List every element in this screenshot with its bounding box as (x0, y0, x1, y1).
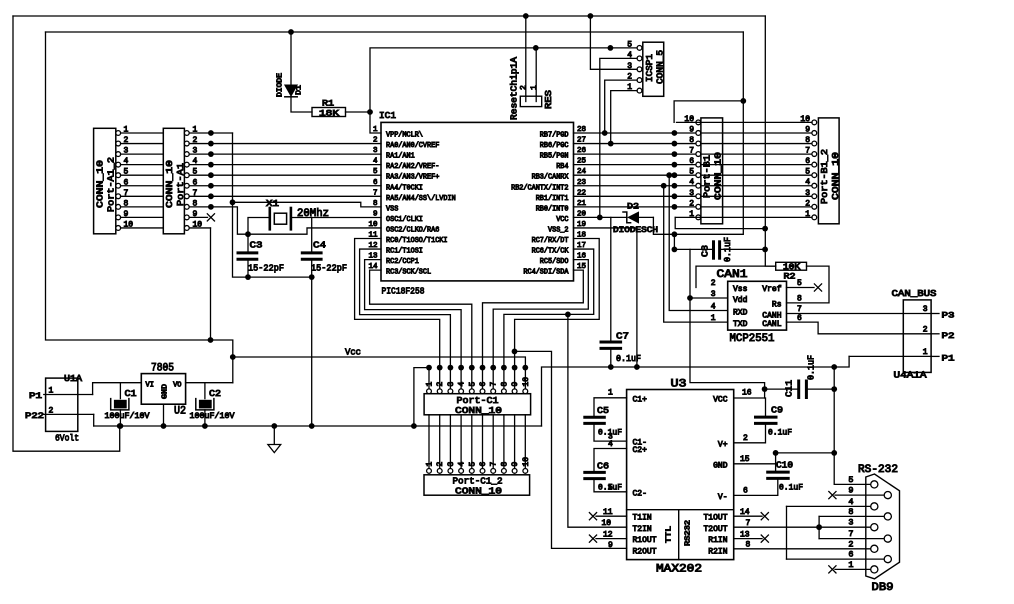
junction Port-B row 5 (672, 172, 678, 178)
svg-text:RC4/SDI/SDA: RC4/SDI/SDA (523, 269, 569, 277)
junction Port-A row 2 (208, 141, 214, 147)
svg-text:4: 4 (711, 302, 716, 311)
svg-text:0.1uF: 0.1uF (779, 483, 803, 493)
capacitor C5 (585, 416, 605, 419)
wire Port-A1_2 pin 2 to Port-A1 (121, 143, 164, 145)
svg-text:Port-B1_2: Port-B1_2 (819, 149, 830, 204)
svg-text:4: 4 (373, 158, 378, 166)
wire IC1 RC7 to Port-C pin 9 (515, 239, 600, 390)
svg-text:6: 6 (805, 157, 810, 166)
svg-text:8: 8 (500, 462, 509, 467)
wire DB9 pin8 row (819, 515, 885, 517)
svg-text:P1: P1 (942, 353, 955, 363)
svg-text:5: 5 (608, 483, 613, 492)
svg-text:8: 8 (373, 200, 378, 208)
junction C8 gnd lead (762, 247, 768, 253)
resistor R1 (312, 108, 346, 117)
wire IC1 VSS_2 to GND mid line (574, 228, 637, 367)
wire IC1 RC6 to Port-C pin 8 (504, 249, 594, 389)
wire IC1 RC5 to Port-C pin 7 (493, 260, 588, 390)
svg-text:C8: C8 (701, 245, 711, 257)
junction Port-A row 1 (208, 130, 214, 136)
junction Port-B row 8 (672, 204, 678, 210)
pin Port-C1 pin 4 (459, 389, 464, 394)
pin Port-A1 pin 1 (184, 131, 189, 136)
junction U3 gnd/C10 (773, 450, 779, 456)
junction C8 vcc lead (672, 247, 678, 253)
svg-text:P1: P1 (29, 391, 42, 401)
junction Port-C pin1 at bus (411, 423, 417, 429)
svg-text:0.1uF: 0.1uF (723, 237, 733, 262)
junction RES pin2 on GND rail (523, 13, 529, 19)
svg-text:RA5/AN4/SS\/LVDIN: RA5/AN4/SS\/LVDIN (386, 195, 456, 203)
pin Port-C1_2 pin 1 (427, 469, 432, 474)
capacitor C10 (768, 471, 789, 474)
svg-text:4: 4 (458, 462, 467, 467)
capacitor C2 (polarized) (204, 383, 206, 399)
svg-text:Vdd: Vdd (733, 296, 748, 305)
svg-text:PIC18F258: PIC18F258 (382, 286, 425, 297)
svg-text:3: 3 (805, 189, 810, 198)
capacitor C3 (238, 251, 257, 254)
svg-text:RB2/CANTX/INT2: RB2/CANTX/INT2 (511, 184, 568, 192)
junction Port-A row 6 (208, 183, 214, 189)
pin Port-A1 pin 9 (184, 215, 189, 220)
svg-text:2: 2 (436, 382, 445, 387)
capacitor C1 (polarized) (119, 383, 121, 399)
op-amp U1 IC1 PIC18F258 body (381, 122, 574, 281)
svg-text:9: 9 (511, 462, 520, 467)
svg-text:18K: 18K (319, 109, 340, 119)
pin Port-A1_2 pin 4 (116, 162, 121, 167)
wire IC1 VCC pin20 to D2 (574, 216, 627, 218)
svg-text:R2OUT: R2OUT (633, 547, 657, 556)
wire Port-A row 5 to IC1 RA3 (189, 174, 381, 176)
svg-text:100uF/10V: 100uF/10V (105, 411, 151, 421)
junction gnd bus tap (309, 423, 315, 429)
pin Port-C1 pin 7 (491, 389, 496, 394)
svg-text:2: 2 (848, 539, 853, 549)
pin Port-A1 pin 2 (184, 141, 189, 146)
svg-text:D2: D2 (627, 202, 639, 212)
pin DB9 pin 3 (871, 524, 878, 531)
wire DB9 pin4 row (787, 505, 873, 507)
junction RX branch on RC7 wire (512, 349, 518, 355)
svg-text:VCC: VCC (713, 395, 728, 404)
wire RX to R2OUT (515, 351, 627, 548)
svg-text:7: 7 (848, 529, 853, 539)
svg-text:5: 5 (373, 168, 378, 176)
svg-text:0.1uF: 0.1uF (616, 354, 641, 364)
svg-text:3: 3 (711, 290, 716, 299)
svg-text:5: 5 (797, 279, 802, 288)
svg-text:1: 1 (848, 560, 853, 570)
wire Port-A1_2 pin 9 to Port-A1 (121, 216, 164, 218)
junction Port-A row 7 (208, 193, 214, 199)
svg-text:RA1/AN1: RA1/AN1 (386, 153, 415, 161)
svg-text:Port-B1: Port-B1 (702, 155, 713, 198)
wire IC1 RB3 row to Port-B (574, 174, 697, 176)
pin Port-B1 pin 2 (696, 204, 701, 209)
wire C7 top lead from VCC row (610, 217, 612, 342)
svg-text:GND: GND (162, 384, 170, 399)
junction GND line to C11/DB9 branch (831, 364, 837, 370)
svg-text:C7: C7 (616, 331, 629, 342)
junction Port-C pin 9 joint (512, 365, 518, 371)
pin Port-C1 pin 6 (480, 389, 485, 394)
junction Port-C pin 6 joint (480, 365, 486, 371)
svg-text:RB4: RB4 (556, 163, 568, 171)
junction Port-B row 2 (672, 141, 678, 147)
svg-text:5: 5 (468, 462, 477, 467)
capacitor C6 (585, 471, 605, 474)
connector Port-B1 CONN_10 (701, 118, 723, 224)
pin Port-B1 pin 4 (696, 183, 701, 188)
wire Vdd drop to U3 VCC (690, 249, 765, 389)
junction C11 right lead (831, 386, 837, 392)
svg-text:RB3/CANRX: RB3/CANRX (532, 174, 570, 182)
svg-text:1: 1 (923, 348, 928, 357)
svg-text:C10: C10 (776, 461, 793, 471)
wire Port-C1_2 pin 9 riser (514, 415, 516, 469)
svg-text:2: 2 (743, 434, 748, 443)
junction ICSP1 pin4 at IC VCC (597, 215, 603, 221)
wire Port-A1_2 pin 5 to Port-A1 (121, 174, 164, 176)
svg-text:ResetChip1A: ResetChip1A (510, 56, 520, 120)
svg-text:0.1uF: 0.1uF (807, 355, 817, 380)
transistor U5 MCP2551 body (728, 281, 787, 330)
wire GND riser to mid line (542, 356, 850, 426)
wire Port-A row10 to riser (189, 227, 210, 229)
junction ICSP1 pin1 at RB6 (608, 141, 614, 147)
svg-text:2: 2 (923, 325, 928, 334)
svg-text:R2: R2 (784, 272, 796, 282)
svg-text:RA2/AN2/VREF-: RA2/AN2/VREF- (386, 163, 439, 171)
junction Port-C pin 2 joint (437, 365, 443, 371)
svg-text:TTL: TTL (666, 525, 674, 543)
svg-text:D1: D1 (296, 85, 304, 95)
wire Port-A row 3 to IC1 RA1 (189, 153, 381, 155)
pin Port-A1 pin 3 (184, 152, 189, 157)
pin Port-C1_2 pin 8 (502, 469, 507, 474)
svg-text:CONN_10: CONN_10 (830, 152, 841, 200)
wire crystal left to OSC2 net (248, 218, 270, 235)
wire U3 pin16 feed (764, 389, 766, 398)
svg-text:RC6/TX/CK: RC6/TX/CK (532, 248, 570, 256)
pin CAN_BUS pin2 P2 (931, 333, 939, 335)
svg-text:C2+: C2+ (633, 446, 648, 455)
svg-text:7: 7 (805, 147, 810, 156)
wire Port-C1_2 pin 6 riser (482, 415, 484, 469)
pin Port-C1 pin 10 (523, 389, 528, 394)
resistor R2 10K (776, 262, 807, 270)
junction MCP Vdd (687, 295, 693, 301)
svg-text:10: 10 (522, 377, 531, 387)
wire 7805 GND pin to bus (163, 404, 165, 426)
wire Port-B row1 (to Port-B1_2) (675, 216, 812, 218)
svg-text:TXD: TXD (733, 320, 748, 329)
svg-text:R1OUT: R1OUT (633, 536, 657, 545)
wire MCP Vss branch (696, 266, 776, 287)
svg-text:6: 6 (848, 550, 853, 560)
pin DB9 pin 8 (884, 513, 891, 520)
pin Port-C1_2 pin 5 (469, 469, 474, 474)
svg-text:5: 5 (627, 40, 632, 49)
svg-text:CONN_10: CONN_10 (95, 160, 106, 208)
pin Port-A1 pin 6 (184, 183, 189, 188)
svg-text:9: 9 (805, 125, 810, 134)
svg-text:T2OUT: T2OUT (703, 525, 727, 534)
svg-text:DB9: DB9 (872, 582, 894, 594)
svg-text:1: 1 (608, 388, 613, 397)
pin CAN_BUS pin3 P3 (931, 313, 939, 315)
junction Port-C pin1 joint (426, 365, 432, 371)
svg-text:X1: X1 (266, 198, 279, 209)
wire U3 GND jog to DB9 branch (776, 453, 835, 472)
pin ICSP1 pin 4 (637, 56, 642, 61)
wire Port-A1_2 pin 3 to Port-A1 (121, 153, 164, 155)
svg-text:10: 10 (368, 221, 378, 229)
wire IC1 RC2 to Port-C pin 4 (365, 260, 462, 390)
svg-text:3: 3 (848, 518, 853, 528)
wire P1 row to GND jog (849, 355, 931, 357)
pin DB9 pin 9 (884, 492, 891, 499)
wire Port-A row8 to OSC2 jog (189, 207, 381, 234)
junction C3 gnd (245, 274, 251, 280)
svg-text:6Volt: 6Volt (55, 433, 79, 444)
pin Port-C1 pin 1 (427, 389, 432, 394)
wire PortA pin10 riser (210, 228, 212, 340)
wire VCC right drop (653, 32, 743, 234)
pin Port-B1 pin 10 (696, 120, 701, 125)
wire OSC1 from crystal to IC pin9 (291, 217, 381, 219)
junction VSS branch (230, 199, 236, 205)
svg-text:VI: VI (146, 382, 154, 390)
svg-text:R1IN: R1IN (708, 536, 727, 545)
svg-text:C3: C3 (250, 240, 263, 251)
svg-text:3: 3 (373, 147, 378, 155)
pin Port-A1 pin 5 (184, 173, 189, 178)
connector Port-A1_2 CONN_10 (94, 128, 116, 234)
svg-text:OSC1/CLKI: OSC1/CLKI (386, 216, 423, 224)
svg-text:VO: VO (173, 382, 181, 390)
junction ICSP1 pin3 at GND rail (588, 13, 594, 19)
svg-text:RC7/RX/DT: RC7/RX/DT (532, 237, 570, 245)
svg-text:C1: C1 (125, 389, 137, 399)
svg-text:U2: U2 (174, 406, 186, 418)
svg-text:C6: C6 (597, 461, 609, 471)
svg-text:RC1/T1OSI: RC1/T1OSI (386, 248, 423, 256)
svg-text:4: 4 (805, 178, 810, 187)
svg-text:15: 15 (740, 455, 750, 464)
pin Port-B1 pin 3 (696, 194, 701, 199)
svg-text:V-: V- (718, 493, 728, 502)
pin Port-C1 pin 8 (502, 389, 507, 394)
pin Port-C1_2 pin 3 (448, 469, 453, 474)
pin Port-B1_2 pin 5 (812, 173, 817, 178)
pin Port-A1 pin 4 (184, 162, 189, 167)
svg-text:3: 3 (447, 382, 456, 387)
wire Port-C1_2 pin 10 riser (524, 415, 526, 469)
connector Port-B1_2 CONN_10 (818, 118, 839, 224)
pin Port-B1_2 pin 1 (812, 215, 817, 220)
junction T2OUT bracket (816, 524, 822, 530)
connector DB9 shell (866, 474, 900, 579)
junction D1 on VCC rail (288, 29, 294, 35)
junction PortB pin1 jog at GND drop (762, 226, 768, 232)
capacitor C8 (712, 242, 715, 258)
pin ICSP1 pin 3 (637, 67, 642, 72)
wire DB9 pin8/pin7 bracket (818, 516, 820, 538)
svg-text:0.1uF: 0.1uF (768, 428, 792, 438)
svg-text:RXD: RXD (733, 308, 748, 317)
junction U3 VCC / C11 node (762, 386, 768, 392)
wire 7805 VO to VCC riser (186, 382, 233, 384)
svg-text:C11: C11 (785, 380, 795, 397)
svg-text:MAX202: MAX202 (656, 564, 702, 576)
svg-text:6: 6 (689, 157, 694, 166)
pin Port-B1_2 pin 6 (812, 162, 817, 167)
connector Port-C1_2 CONN_10 (424, 475, 530, 495)
svg-text:2: 2 (689, 199, 694, 208)
svg-text:7: 7 (490, 382, 499, 387)
svg-text:2: 2 (520, 85, 529, 90)
pin DB9 pin 2 (871, 545, 878, 552)
svg-text:4: 4 (458, 382, 467, 387)
junction Port-C pin 8 joint (501, 365, 507, 371)
junction Port-A row 8 (208, 204, 214, 210)
crystal X1 (268, 208, 271, 229)
wire TXD riser (664, 186, 728, 322)
wire C4 top lead (311, 218, 313, 253)
svg-text:5: 5 (689, 168, 694, 177)
wire ICSP1 pin3 to GND rail (590, 16, 637, 69)
svg-text:3: 3 (923, 305, 928, 314)
pin Port-C1_2 pin 10 (523, 469, 528, 474)
diode D2 DIODESCH (628, 212, 638, 223)
wire ICSP1 pin1 to RB6 (611, 91, 637, 144)
wire P1 to 7805 VI (93, 383, 142, 395)
junction Port-A row 3 (208, 151, 214, 157)
capacitor C7 (601, 341, 621, 344)
svg-text:7: 7 (490, 462, 499, 467)
pin ICSP1 pin 5 (637, 46, 642, 51)
op-amp U3 MAX202 body (627, 390, 734, 560)
svg-text:CONN_10: CONN_10 (164, 160, 175, 208)
wire Port-A1_2 pin 7 to Port-A1 (121, 195, 164, 197)
connector Port-C1 CONN_10 (424, 394, 530, 415)
svg-text:11: 11 (603, 508, 613, 517)
svg-text:VCC: VCC (556, 216, 569, 224)
pin Port-C1_2 pin 6 (480, 469, 485, 474)
pin Port-C1_2 pin 4 (459, 469, 464, 474)
wire VCC left drop to y340 line (46, 32, 233, 383)
pin Port-C1_2 pin 9 (512, 469, 517, 474)
svg-text:P2: P2 (942, 331, 955, 341)
wire PortB pin10 branch (674, 101, 743, 123)
svg-text:RC3/SCK/SCL: RC3/SCK/SCL (386, 269, 431, 277)
wire IC1 RC0 to Port-C pin 2 (355, 239, 440, 390)
wire Vcc rail to Port-C pin10 (233, 357, 526, 392)
svg-text:RS-232: RS-232 (858, 464, 898, 476)
wire ICSP1 pin2 to RB7 (605, 80, 637, 133)
wire DB9 pin7 row (819, 538, 885, 540)
pin Port-B1 pin 5 (696, 173, 701, 178)
svg-text:U1A: U1A (64, 373, 82, 384)
svg-text:VSS: VSS (386, 205, 398, 213)
svg-text:2: 2 (373, 137, 378, 145)
pin DB9 pin 5 (871, 481, 878, 488)
svg-text:15-22pF: 15-22pF (311, 263, 347, 274)
svg-text:R1: R1 (322, 99, 334, 109)
wire TX to T2IN (568, 314, 627, 527)
svg-text:RC2/CCP1: RC2/CCP1 (386, 258, 419, 266)
junction Port-A row 5 (208, 172, 214, 178)
svg-text:CAN_BUS: CAN_BUS (892, 288, 937, 299)
svg-text:Vref: Vref (762, 285, 781, 294)
svg-text:6: 6 (479, 462, 488, 467)
pin ICSP1 pin 1 (637, 88, 642, 93)
wire C8 vcc lead riser (673, 234, 675, 249)
svg-text:C5: C5 (597, 406, 609, 416)
connector CAN_BUS U4A1A (903, 300, 931, 373)
junction Port-A row 4 (208, 162, 214, 168)
svg-text:P22: P22 (25, 411, 44, 421)
svg-text:1: 1 (711, 314, 716, 323)
pin Port-A1_2 pin 1 (116, 131, 121, 136)
svg-text:GND: GND (713, 461, 728, 470)
svg-text:RB7/PGD: RB7/PGD (540, 132, 569, 140)
pin Port-B1_2 pin 4 (812, 183, 817, 188)
pin Port-B1 pin 8 (696, 141, 701, 146)
connector ICSP1 CONN_5 (643, 42, 664, 96)
junction RES riser on MCLR rail (533, 45, 539, 51)
svg-text:T2IN: T2IN (633, 525, 652, 534)
wire IC1 RC1 to Port-C pin 3 (360, 249, 451, 389)
svg-text:20Mhz: 20Mhz (297, 208, 329, 220)
svg-text:8: 8 (797, 295, 802, 304)
pin Port-C1_2 pin 7 (491, 469, 496, 474)
svg-text:RB6/PGC: RB6/PGC (540, 142, 569, 150)
switch RES body ResetChip1A (520, 96, 541, 106)
svg-text:9: 9 (689, 125, 694, 134)
junction Port-C pin 4 joint (458, 365, 464, 371)
junction crystal/C3/OSC2 (245, 231, 251, 237)
svg-text:CAN1: CAN1 (717, 269, 748, 281)
svg-text:6: 6 (479, 382, 488, 387)
svg-text:1: 1 (530, 85, 539, 90)
svg-text:RB1/INT1: RB1/INT1 (536, 195, 569, 203)
svg-text:CANL: CANL (762, 320, 781, 329)
wire GND left drop / bottom return (13, 16, 120, 451)
wire GND bus (bottom) (94, 425, 542, 427)
svg-text:7: 7 (689, 147, 694, 156)
svg-text:C4: C4 (313, 240, 326, 251)
wire Port-A row 2 to IC1 RA0 (189, 143, 381, 145)
pin Port-A1_2 pin 7 (116, 194, 121, 199)
junction ground symbol on bus (271, 423, 277, 429)
wire IC1 RB0 row to Port-B (574, 206, 697, 208)
wire IC1 RC4 to Port-C pin 6 (483, 270, 584, 389)
svg-text:T1IN: T1IN (633, 514, 652, 523)
pin Port-C1 pin 5 (469, 389, 474, 394)
junction C7 at GND line (608, 364, 614, 370)
junction VCC mid line (672, 231, 678, 237)
pin Port-A1 pin 8 (184, 204, 189, 209)
capacitor C4 (302, 251, 321, 254)
wire Port-C1_2 pin 2 riser (439, 415, 441, 469)
svg-text:CONN_10: CONN_10 (455, 405, 502, 416)
